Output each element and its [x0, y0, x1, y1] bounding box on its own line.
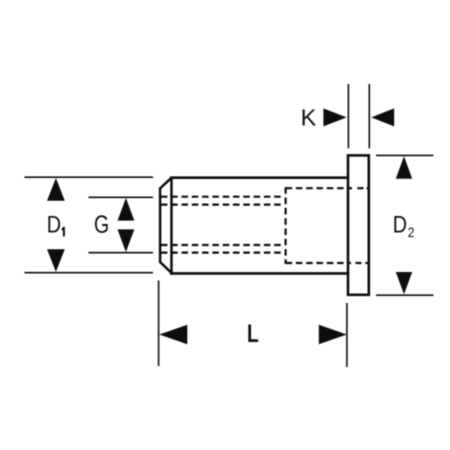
dimension D1 down arrow: [47, 249, 65, 272]
thread dashed line bottom outer: [161, 252, 283, 254]
svg-text:D: D: [47, 210, 61, 237]
bore dashed top line: [286, 187, 348, 189]
rivet nut body top edge: [170, 176, 349, 179]
dimension D2 top extension line: [376, 154, 434, 156]
svg-text:K: K: [301, 105, 317, 131]
body chamfer top slant: [160, 178, 171, 189]
thread dashed line bottom inner: [161, 244, 283, 246]
dimension G down arrow: [118, 229, 135, 252]
body chamfer inner vertical line: [170, 177, 173, 275]
svg-text:D: D: [393, 211, 407, 238]
dimension K right extension line: [368, 84, 370, 148]
dimension D1 bottom extension line: [25, 272, 154, 274]
svg-text:G: G: [94, 211, 109, 239]
dimension G up arrow: [118, 198, 135, 221]
dimension K right-pointing arrow: [323, 108, 346, 126]
thread dashed line top inner: [161, 204, 283, 206]
dimension L left extension line: [158, 281, 160, 367]
svg-text:2: 2: [408, 224, 415, 240]
body left end vertical edge: [159, 187, 162, 262]
dimension G bottom extension line: [89, 252, 154, 254]
dimension D2 bottom extension line: [376, 294, 434, 296]
dimension K left-pointing arrow: [371, 108, 394, 126]
thread dashed line top outer: [161, 196, 283, 198]
dimension L left-pointing arrow: [159, 325, 187, 345]
bore dashed bottom line inside flange: [349, 262, 352, 264]
label D1 subscript 1: [63, 227, 65, 237]
bore dashed bottom line: [286, 262, 348, 264]
dimension D1 up arrow: [47, 178, 65, 201]
body chamfer bottom slant: [160, 262, 171, 273]
dimension L right extension line: [346, 303, 348, 367]
dimension D2 up arrow: [396, 156, 412, 178]
rivet nut body bottom edge: [170, 272, 349, 275]
bore dashed top line inside flange: [349, 187, 353, 189]
bore dashed rectangle left vertical: [285, 187, 287, 264]
svg-text:L: L: [247, 320, 259, 348]
flange rectangle: [348, 155, 369, 294]
dimension L right-pointing arrow: [319, 325, 347, 345]
dimension D1 top extension line: [25, 176, 154, 178]
dimension K left extension line: [347, 84, 349, 148]
dimension D2 down arrow: [396, 272, 412, 294]
dimension G top extension line: [89, 196, 154, 198]
